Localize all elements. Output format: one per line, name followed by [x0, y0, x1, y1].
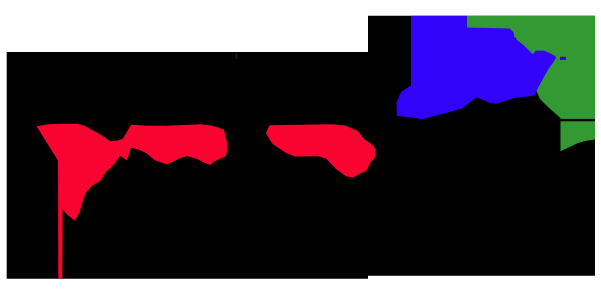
black thin line inside green — [560, 119, 596, 121]
red blobs 1+2 merged with stem — [37, 124, 228, 279]
red blob 3 — [266, 124, 376, 177]
green region top right — [467, 16, 595, 151]
faint gray tick inside black — [236, 54, 238, 60]
blue region — [397, 16, 557, 120]
blue dash inside green — [560, 57, 566, 60]
